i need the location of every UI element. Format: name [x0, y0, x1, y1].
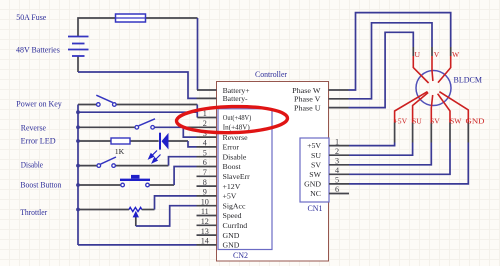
- svg-text:SU: SU: [412, 117, 422, 126]
- svg-text:Out(+48V): Out(+48V): [223, 113, 252, 122]
- svg-text:GND: GND: [304, 180, 321, 189]
- svg-text:13: 13: [201, 227, 209, 236]
- svg-text:1: 1: [335, 137, 339, 146]
- svg-text:Error LED: Error LED: [21, 137, 56, 146]
- svg-text:V: V: [434, 50, 440, 59]
- svg-text:SV: SV: [311, 160, 321, 169]
- svg-text:Controller: Controller: [255, 70, 287, 79]
- svg-text:+12V: +12V: [223, 182, 241, 191]
- svg-text:Reverse: Reverse: [21, 123, 47, 132]
- svg-text:SU: SU: [311, 151, 321, 160]
- svg-text:SV: SV: [430, 117, 440, 126]
- svg-text:5: 5: [335, 176, 339, 185]
- svg-text:48V Batteries: 48V Batteries: [16, 46, 60, 55]
- svg-text:4: 4: [335, 166, 339, 175]
- svg-text:Phase U: Phase U: [294, 103, 321, 112]
- svg-text:Battery-: Battery-: [223, 94, 248, 103]
- svg-text:+5V: +5V: [307, 141, 321, 150]
- svg-text:6: 6: [203, 158, 207, 167]
- svg-text:+5V: +5V: [394, 117, 408, 126]
- svg-text:SW: SW: [450, 117, 462, 126]
- svg-text:7: 7: [203, 168, 207, 177]
- svg-text:Disable: Disable: [21, 161, 44, 170]
- svg-text:CurrInd: CurrInd: [223, 221, 248, 230]
- svg-text:W: W: [452, 50, 460, 59]
- svg-text:14: 14: [201, 237, 209, 246]
- svg-text:Disable: Disable: [223, 152, 247, 161]
- svg-text:Phase W: Phase W: [292, 86, 321, 95]
- svg-text:11: 11: [201, 207, 209, 216]
- svg-text:Boost Button: Boost Button: [20, 181, 61, 190]
- svg-text:50A Fuse: 50A Fuse: [16, 13, 46, 22]
- svg-text:12: 12: [201, 217, 209, 226]
- svg-text:CN2: CN2: [233, 251, 248, 260]
- svg-text:CN1: CN1: [307, 204, 322, 213]
- svg-text:2: 2: [203, 119, 207, 128]
- svg-text:6: 6: [335, 185, 339, 194]
- svg-text:10: 10: [201, 197, 209, 206]
- svg-text:SlaveErr: SlaveErr: [223, 172, 251, 181]
- svg-text:4: 4: [203, 139, 207, 148]
- svg-text:Speed: Speed: [223, 211, 242, 220]
- svg-text:Boost: Boost: [223, 162, 242, 171]
- svg-text:Phase V: Phase V: [294, 95, 321, 104]
- svg-text:9: 9: [203, 188, 207, 197]
- svg-text:Power on Key: Power on Key: [16, 99, 62, 108]
- svg-text:1K: 1K: [115, 147, 125, 156]
- svg-text:GND: GND: [223, 231, 240, 240]
- svg-text:SW: SW: [309, 170, 321, 179]
- svg-text:Throttler: Throttler: [20, 208, 47, 217]
- svg-text:BLDCM: BLDCM: [454, 76, 482, 85]
- svg-text:SigAcc: SigAcc: [223, 201, 246, 210]
- svg-text:U: U: [415, 50, 421, 59]
- svg-text:GND: GND: [223, 241, 240, 250]
- svg-text:Error: Error: [223, 143, 240, 152]
- svg-text:GND: GND: [466, 117, 486, 126]
- svg-text:8: 8: [203, 178, 207, 187]
- svg-text:+5V: +5V: [223, 192, 237, 201]
- svg-text:5: 5: [203, 148, 207, 157]
- svg-text:2: 2: [335, 147, 339, 156]
- svg-text:3: 3: [335, 157, 339, 166]
- svg-text:NC: NC: [310, 189, 321, 198]
